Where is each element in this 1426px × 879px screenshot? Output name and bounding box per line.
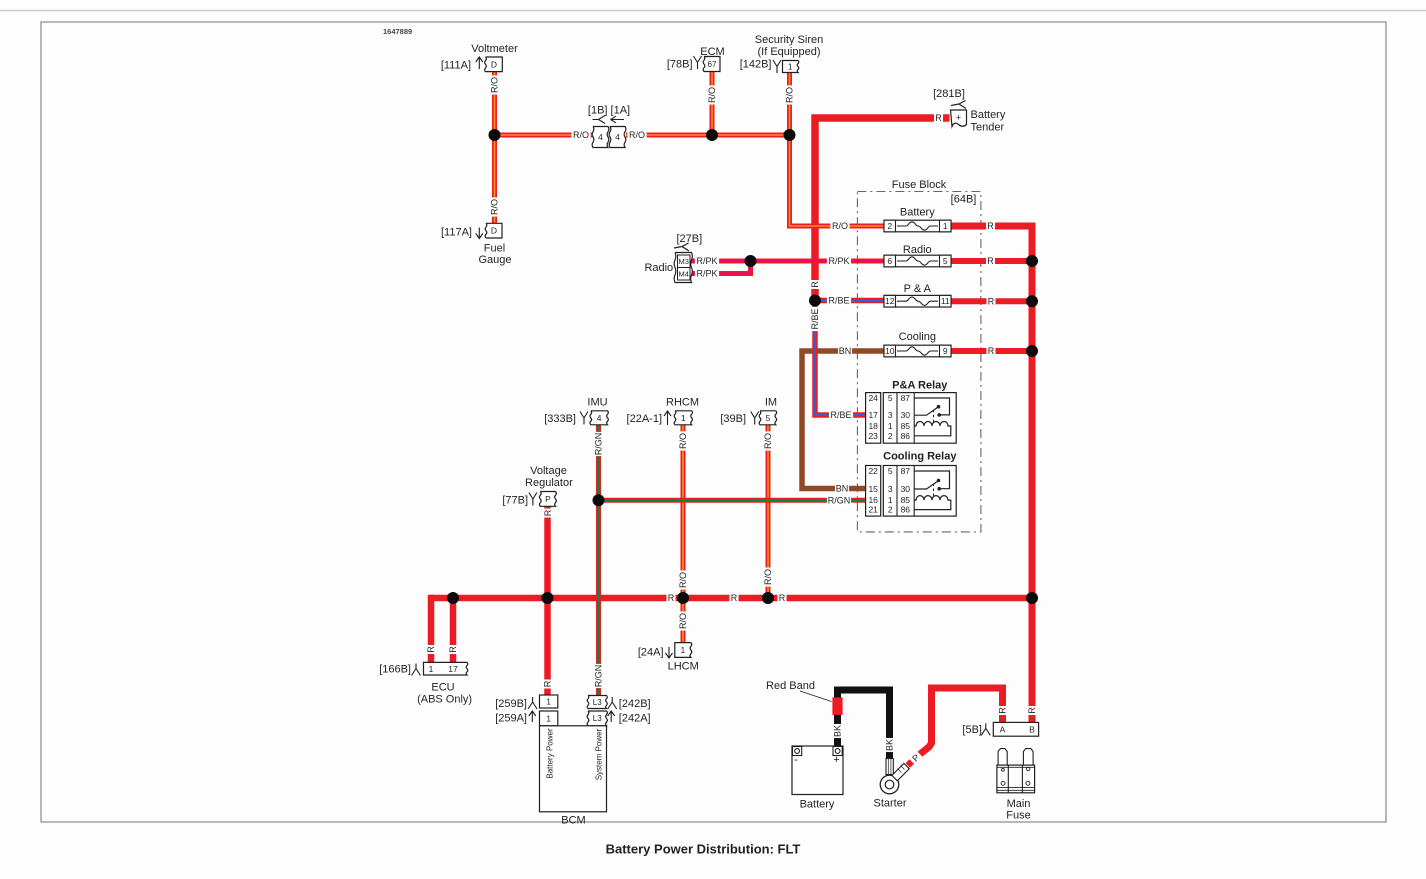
svg-text:[22A-1]: [22A-1] (627, 413, 662, 425)
svg-text:1: 1 (546, 713, 551, 723)
svg-text:4: 4 (598, 132, 603, 142)
svg-text:BN: BN (836, 484, 849, 494)
svg-text:[64B]: [64B] (951, 194, 977, 206)
svg-text:5: 5 (888, 393, 893, 403)
svg-text:R/O: R/O (763, 433, 773, 449)
svg-text:3: 3 (888, 410, 893, 420)
svg-text:BCM: BCM (561, 815, 585, 827)
svg-text:Radio: Radio (644, 262, 673, 274)
svg-text:1: 1 (680, 645, 685, 655)
svg-text:D: D (491, 226, 497, 236)
svg-text:[242A]: [242A] (619, 713, 651, 725)
svg-text:Fuel: Fuel (484, 243, 505, 255)
svg-text:Main: Main (1007, 798, 1031, 810)
svg-text:P & A: P & A (904, 283, 932, 295)
svg-text:[142B]: [142B] (740, 59, 772, 71)
svg-text:+: + (956, 112, 961, 122)
svg-text:R/O: R/O (707, 87, 717, 103)
svg-text:2: 2 (887, 221, 892, 231)
svg-text:1: 1 (681, 413, 686, 423)
svg-text:6: 6 (887, 256, 892, 266)
svg-text:10: 10 (885, 346, 895, 356)
svg-text:1: 1 (888, 421, 893, 431)
svg-text:Fuse: Fuse (1006, 810, 1030, 822)
svg-text:R: R (935, 113, 942, 123)
svg-text:12: 12 (885, 296, 895, 306)
svg-text:[1B] [1A]: [1B] [1A] (588, 105, 630, 117)
svg-text:M4: M4 (679, 269, 689, 278)
svg-text:R/BE: R/BE (810, 308, 820, 329)
svg-text:[333B]: [333B] (544, 413, 576, 425)
svg-text:1: 1 (788, 61, 793, 71)
svg-text:R/PK: R/PK (696, 269, 717, 279)
svg-text:5: 5 (888, 466, 893, 476)
svg-text:R: R (426, 646, 436, 653)
svg-text:P: P (545, 494, 551, 504)
svg-text:9: 9 (943, 346, 948, 356)
svg-text:[27B]: [27B] (677, 233, 703, 245)
svg-text:R: R (668, 593, 675, 603)
svg-text:86: 86 (901, 505, 911, 515)
svg-text:BK: BK (885, 739, 895, 751)
svg-text:86: 86 (901, 431, 911, 441)
svg-text:[78B]: [78B] (667, 59, 693, 71)
svg-text:Battery: Battery (971, 109, 1006, 121)
svg-text:30: 30 (901, 484, 911, 494)
svg-text:4: 4 (615, 132, 620, 142)
svg-text:[39B]: [39B] (720, 413, 746, 425)
svg-text:R/GN: R/GN (594, 433, 604, 456)
svg-text:17: 17 (448, 664, 458, 674)
svg-text:[259B]: [259B] (495, 698, 527, 710)
svg-text:ECM: ECM (700, 46, 724, 58)
svg-text:+: + (833, 754, 839, 766)
svg-text:[166B]: [166B] (379, 664, 411, 676)
svg-text:Starter: Starter (873, 798, 906, 810)
svg-text:P&A Relay: P&A Relay (892, 380, 948, 392)
svg-text:87: 87 (901, 393, 911, 403)
svg-text:Voltmeter: Voltmeter (471, 43, 518, 55)
svg-text:R: R (543, 509, 553, 516)
svg-text:85: 85 (901, 421, 911, 431)
svg-text:5: 5 (943, 256, 948, 266)
svg-text:21: 21 (868, 505, 878, 515)
svg-text:System Power: System Power (595, 728, 604, 780)
svg-text:Regulator: Regulator (525, 477, 573, 489)
svg-text:BN: BN (839, 346, 852, 356)
svg-text:Cooling: Cooling (899, 331, 936, 343)
svg-text:D: D (491, 59, 497, 69)
svg-text:Fuse Block: Fuse Block (892, 179, 947, 191)
svg-text:(ABS Only): (ABS Only) (417, 694, 472, 706)
svg-text:[5B]: [5B] (962, 724, 982, 736)
svg-text:R: R (987, 221, 994, 231)
svg-text:1: 1 (429, 664, 434, 674)
svg-text:R: R (998, 707, 1008, 714)
svg-text:16: 16 (868, 495, 878, 505)
svg-text:Security Siren: Security Siren (755, 34, 823, 46)
svg-text:15: 15 (868, 484, 878, 494)
svg-text:[242B]: [242B] (619, 698, 651, 710)
svg-text:R: R (731, 593, 738, 603)
svg-text:R: R (987, 256, 994, 266)
svg-text:R: R (543, 680, 553, 687)
svg-text:Radio: Radio (903, 244, 932, 256)
svg-text:11: 11 (941, 296, 950, 306)
svg-text:R: R (810, 281, 820, 288)
svg-text:R/BE: R/BE (830, 410, 851, 420)
svg-text:R: R (1027, 707, 1037, 714)
svg-text:[111A]: [111A] (441, 60, 471, 72)
svg-text:R/GN: R/GN (828, 495, 851, 505)
svg-text:4: 4 (597, 413, 602, 423)
svg-text:Battery Power: Battery Power (546, 728, 555, 779)
svg-text:5: 5 (766, 413, 771, 423)
svg-text:R/O: R/O (678, 613, 688, 629)
svg-text:1647889: 1647889 (383, 27, 412, 36)
svg-text:(If Equipped): (If Equipped) (758, 46, 821, 58)
svg-text:3: 3 (888, 484, 893, 494)
svg-text:B: B (1029, 725, 1035, 735)
svg-text:Battery: Battery (900, 207, 935, 219)
svg-text:R/PK: R/PK (828, 256, 849, 266)
svg-text:Red Band: Red Band (766, 680, 815, 692)
svg-text:R/O: R/O (763, 569, 773, 585)
svg-text:Gauge: Gauge (478, 254, 511, 266)
svg-text:ECU: ECU (431, 682, 454, 694)
svg-text:R: R (448, 646, 458, 653)
svg-text:1: 1 (888, 495, 893, 505)
svg-text:Cooling Relay: Cooling Relay (883, 451, 957, 463)
svg-text:A: A (1000, 725, 1006, 735)
svg-text:30: 30 (901, 410, 911, 420)
svg-text:[117A]: [117A] (441, 227, 472, 239)
svg-text:67: 67 (708, 60, 717, 69)
svg-text:Battery Power Distribution: FL: Battery Power Distribution: FLT (606, 842, 801, 857)
svg-text:R/GN: R/GN (594, 665, 604, 688)
svg-text:Tender: Tender (971, 122, 1005, 134)
svg-text:18: 18 (868, 421, 878, 431)
svg-text:17: 17 (868, 410, 878, 420)
svg-text:[281B]: [281B] (933, 88, 965, 100)
svg-text:R/BE: R/BE (828, 296, 849, 306)
svg-text:2: 2 (888, 431, 893, 441)
svg-text:R: R (988, 346, 995, 356)
svg-text:BK: BK (833, 725, 843, 737)
svg-text:L3: L3 (593, 698, 602, 707)
svg-text:1: 1 (943, 221, 948, 231)
svg-text:Battery: Battery (800, 799, 835, 811)
svg-text:23: 23 (868, 431, 878, 441)
svg-text:1: 1 (546, 696, 551, 706)
svg-text:22: 22 (868, 466, 878, 476)
svg-text:R/O: R/O (573, 130, 589, 140)
svg-text:R/O: R/O (678, 572, 688, 588)
svg-text:L3: L3 (593, 714, 602, 723)
svg-text:[259A]: [259A] (495, 713, 527, 725)
svg-text:LHCM: LHCM (668, 661, 699, 673)
svg-text:R/O: R/O (490, 77, 500, 93)
svg-text:M3: M3 (679, 257, 689, 266)
svg-text:R/O: R/O (785, 87, 795, 103)
svg-text:R/O: R/O (832, 221, 848, 231)
svg-text:R/PK: R/PK (696, 256, 717, 266)
svg-text:R/O: R/O (490, 199, 500, 215)
svg-text:-: - (794, 754, 798, 766)
svg-text:R/O: R/O (629, 130, 645, 140)
svg-text:87: 87 (901, 466, 911, 476)
svg-text:IM: IM (765, 397, 777, 409)
svg-text:IMU: IMU (587, 397, 607, 409)
svg-text:R: R (779, 593, 786, 603)
svg-text:24: 24 (868, 393, 878, 403)
svg-text:Voltage: Voltage (530, 465, 567, 477)
svg-text:RHCM: RHCM (666, 397, 699, 409)
svg-text:2: 2 (888, 505, 893, 515)
svg-text:R/O: R/O (678, 433, 688, 449)
svg-text:R: R (988, 296, 995, 306)
svg-text:[24A]: [24A] (638, 647, 664, 659)
svg-text:85: 85 (901, 495, 911, 505)
svg-text:[77B]: [77B] (502, 495, 528, 507)
